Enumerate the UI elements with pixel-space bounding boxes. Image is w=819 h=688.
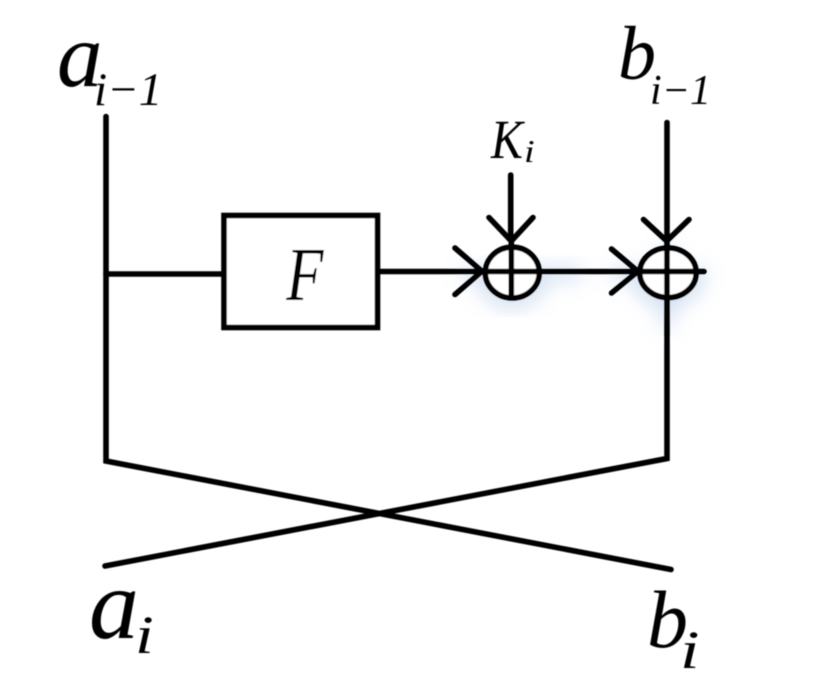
svg-text:F: F (285, 233, 324, 317)
XOR X1 circle (485, 247, 539, 298)
XOR X1 plus vertical (508, 241, 514, 298)
svg-text:a: a (89, 549, 139, 660)
wire: F output horizontal through XORs (380, 269, 704, 275)
arrowhead into XOR X2 (horizontal) (612, 249, 639, 293)
glow halo around XOR X2 (612, 245, 704, 328)
svg-text:i: i (135, 606, 154, 665)
svg-text:i−1: i−1 (650, 68, 711, 114)
F box (224, 216, 378, 328)
svg-text:i: i (680, 620, 700, 680)
glow halo around XOR X1 (462, 272, 582, 300)
wire: b input vertical + cross diagonal to a_i (105, 123, 667, 567)
arrowhead into XOR X1 (horizontal) (455, 248, 482, 295)
svg-text:K: K (490, 110, 525, 171)
wire: branch from a line into F (106, 271, 224, 277)
wire: K_i vertical into XOR X1 (508, 175, 514, 238)
XOR X2 circle (640, 248, 696, 298)
arrowhead into XOR X2 (vertical) (644, 220, 690, 242)
XOR X2 plus horizontal (639, 269, 704, 275)
arrowhead into XOR X1 (vertical) (489, 218, 533, 242)
XOR X1 plus horizontal (484, 269, 541, 275)
svg-text:i: i (524, 134, 535, 169)
svg-text:i−1: i−1 (94, 64, 162, 116)
XOR X2 plus vertical (664, 241, 670, 335)
wire: a input vertical + cross diagonal to b_i (106, 117, 671, 570)
